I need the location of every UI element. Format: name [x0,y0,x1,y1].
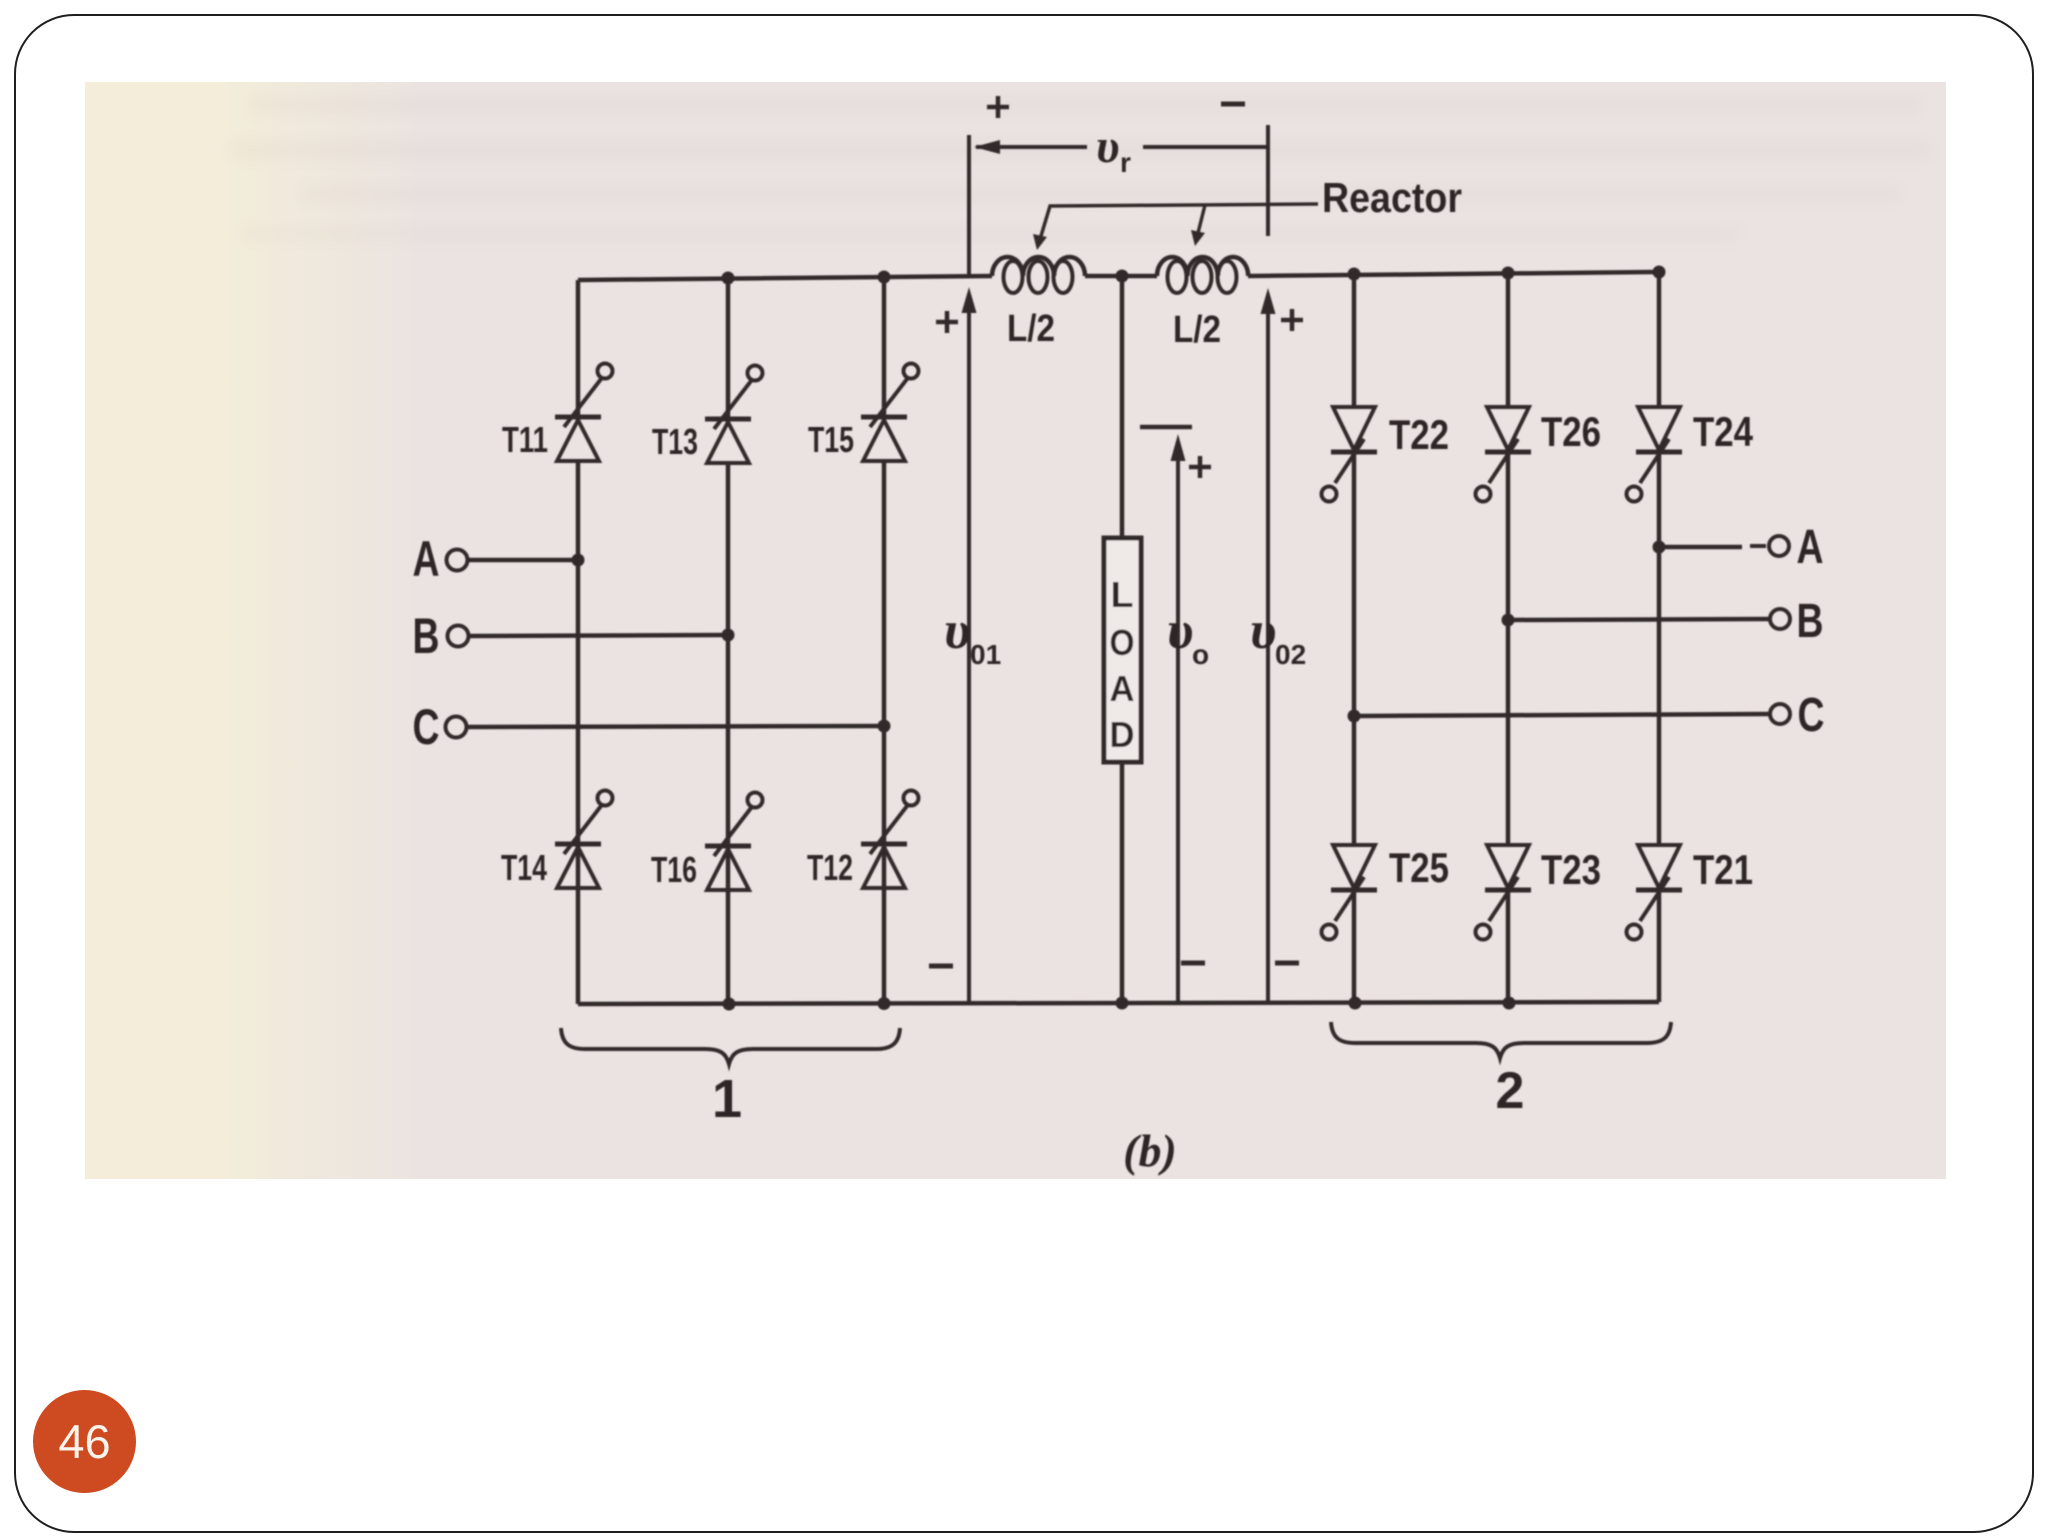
node: junction C on column 3 [878,720,891,733]
inductor L/2 left half of reactor [992,257,1085,293]
svg-text:T24: T24 [1693,408,1754,455]
svg-text:T11: T11 [502,419,548,460]
thyristor T15 [861,364,919,462]
svg-text:D: D [1110,714,1135,755]
node: top bus junction at T22 column [1348,268,1361,281]
svg-text:1: 1 [712,1069,742,1129]
thyristor T26 [1476,407,1532,502]
thyristor T12 [861,791,919,889]
svg-text:L/2: L/2 [1007,308,1055,350]
node: top bus junction at T26 column [1502,267,1515,280]
terminal A (left) [447,550,579,571]
svg-text:υ: υ [944,600,970,660]
thyristor T25 [1322,845,1378,940]
node: top bus junction at T24 column [1653,266,1666,279]
dimension vr with plus and minus [969,96,1268,276]
node: load tap junction on top bus [1116,270,1129,283]
wire: load branch upper [1120,276,1125,538]
svg-text:T16: T16 [651,849,697,890]
thyristor T21 [1627,845,1683,940]
svg-text:T22: T22 [1389,411,1449,458]
svg-text:υ: υ [1250,600,1276,660]
svg-text:T23: T23 [1541,846,1601,893]
thyristor T24 [1627,407,1683,502]
svg-text:T26: T26 [1541,408,1601,455]
label Reactor with leader arrows [1033,174,1462,250]
wire: left bank column 2 (T13/T16) [726,278,731,1004]
node: junction B on column 2 [722,629,735,642]
terminal B (left) [448,626,729,647]
node: junction B on right column 2 [1502,614,1515,627]
svg-text:r: r [1120,147,1131,178]
wire: left bank column 3 (T15/T12) [882,277,887,1004]
node: junction A on right column 3 [1653,541,1666,554]
svg-text:L/2: L/2 [1173,309,1221,351]
thyristor T22 [1322,407,1378,502]
inductor L/2 right half of reactor [1157,257,1248,293]
svg-text:B: B [1797,595,1824,648]
terminal C (right) [1354,704,1790,724]
svg-text:02: 02 [1275,639,1306,670]
brace: converter group 1 [561,1028,900,1064]
node: bottom bus junction at T16 column [723,998,736,1011]
wire: right bank column 1 (T22/T25) [1352,274,1357,1003]
svg-text:O: O [1110,622,1135,663]
svg-text:A: A [1797,521,1824,574]
terminal C (left) [446,717,885,738]
measurement vo1 arrow with plus and minus [929,287,977,1004]
node: top bus junction at T13 column [722,272,735,285]
svg-text:2: 2 [1496,1062,1525,1120]
svg-text:A: A [413,531,440,587]
svg-text:T21: T21 [1693,846,1753,893]
brace: converter group 2 [1331,1022,1671,1058]
svg-text:T12: T12 [807,847,853,888]
terminal A (right) [1659,536,1789,556]
measurement vo arrow with plus and minus [1140,427,1211,1003]
node: junction C on right column 1 [1348,710,1361,723]
node: junction A on column 1 [572,554,585,567]
thyristor T11 [555,364,613,462]
wire: top bus (right section) [1248,272,1659,276]
svg-text:T14: T14 [501,847,547,888]
terminal B (right) [1508,609,1790,629]
thyristor T23 [1476,845,1532,940]
svg-text:01: 01 [970,639,1001,670]
label vo1 [944,600,1001,670]
svg-text:C: C [1798,689,1825,742]
svg-text:B: B [413,608,440,664]
node: bottom bus junction at T23 column [1503,997,1516,1010]
wire: top bus (left section) [578,276,992,280]
wire: left bank column 1 (T11/T14) [576,280,581,1004]
wire: load branch lower [1120,762,1125,1003]
svg-text:υ: υ [1167,600,1193,660]
node: bottom bus junction at T12 column [878,997,891,1010]
measurement vo2 arrow with plus and minus [1261,288,1304,1003]
svg-text:υ: υ [1096,120,1120,173]
svg-text:o: o [1192,639,1209,670]
page number badge [33,1390,136,1493]
svg-text:T13: T13 [652,421,698,462]
thyristor T16 [705,793,763,891]
svg-text:(b): (b) [1123,1125,1177,1176]
label vo [1167,600,1209,670]
wire: right bank column 3 (T24/T21) [1657,272,1662,1002]
thyristor T13 [705,366,763,464]
svg-text:C: C [413,699,440,755]
load box LOAD [1104,538,1141,762]
svg-text:Reactor: Reactor [1322,174,1462,221]
label vo2 [1250,600,1306,670]
svg-text:T25: T25 [1389,844,1449,891]
wire: bottom bus [578,1002,1659,1004]
node: top bus junction at T15 column [878,271,891,284]
node: bottom bus junction at load column [1116,997,1129,1010]
svg-text:L: L [1111,574,1134,615]
wire: right bank column 2 (T26/T23) [1506,273,1511,1003]
node: bottom bus junction at T25 column [1349,997,1362,1010]
thyristor T14 [555,791,613,889]
svg-text:A: A [1110,668,1135,709]
svg-text:T15: T15 [808,419,854,460]
wire: top bus (middle section) [1085,274,1157,279]
